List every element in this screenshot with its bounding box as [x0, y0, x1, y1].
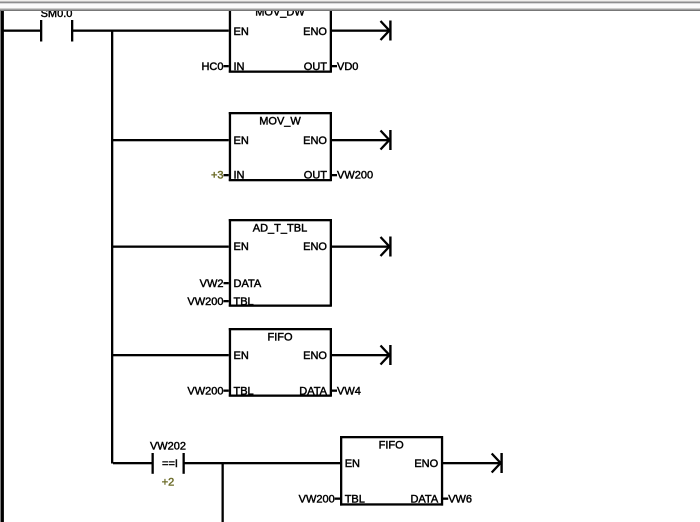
svg-text:OUT: OUT — [304, 169, 328, 181]
svg-text:EN: EN — [345, 458, 360, 470]
svg-text:EN: EN — [234, 26, 249, 38]
svg-text:TBL: TBL — [234, 386, 254, 398]
svg-text:TBL: TBL — [345, 494, 365, 506]
svg-text:VW200: VW200 — [337, 169, 373, 181]
svg-text:EN: EN — [234, 135, 249, 147]
svg-text:+3: +3 — [211, 169, 224, 181]
svg-text:ENO: ENO — [303, 135, 327, 147]
svg-text:DATA: DATA — [234, 278, 262, 290]
svg-text:DATA: DATA — [410, 494, 438, 506]
svg-text:VW200: VW200 — [187, 296, 223, 308]
svg-text:ENO: ENO — [414, 458, 438, 470]
svg-text:IN: IN — [234, 61, 245, 73]
svg-text:VW4: VW4 — [337, 386, 361, 398]
svg-text:VW200: VW200 — [299, 494, 335, 506]
svg-text:VW202: VW202 — [150, 441, 186, 453]
svg-text:EN: EN — [234, 350, 249, 362]
svg-text:VW2: VW2 — [200, 278, 224, 290]
svg-text:ENO: ENO — [303, 350, 327, 362]
svg-text:TBL: TBL — [234, 296, 254, 308]
svg-text:+2: +2 — [162, 477, 175, 489]
svg-text:AD_T_TBL: AD_T_TBL — [253, 223, 307, 235]
svg-text:VW200: VW200 — [187, 386, 223, 398]
svg-text:EN: EN — [234, 241, 249, 253]
svg-text:OUT: OUT — [304, 61, 328, 73]
svg-text:FIFO: FIFO — [267, 332, 292, 344]
svg-text:HC0: HC0 — [201, 61, 223, 73]
svg-text:==I: ==I — [162, 458, 178, 470]
svg-text:ENO: ENO — [303, 26, 327, 38]
svg-text:VW6: VW6 — [448, 494, 472, 506]
svg-text:IN: IN — [234, 169, 245, 181]
svg-text:FIFO: FIFO — [379, 440, 404, 452]
svg-text:DATA: DATA — [299, 386, 327, 398]
svg-text:VD0: VD0 — [337, 61, 358, 73]
svg-text:ENO: ENO — [303, 241, 327, 253]
svg-text:MOV_W: MOV_W — [259, 116, 301, 128]
